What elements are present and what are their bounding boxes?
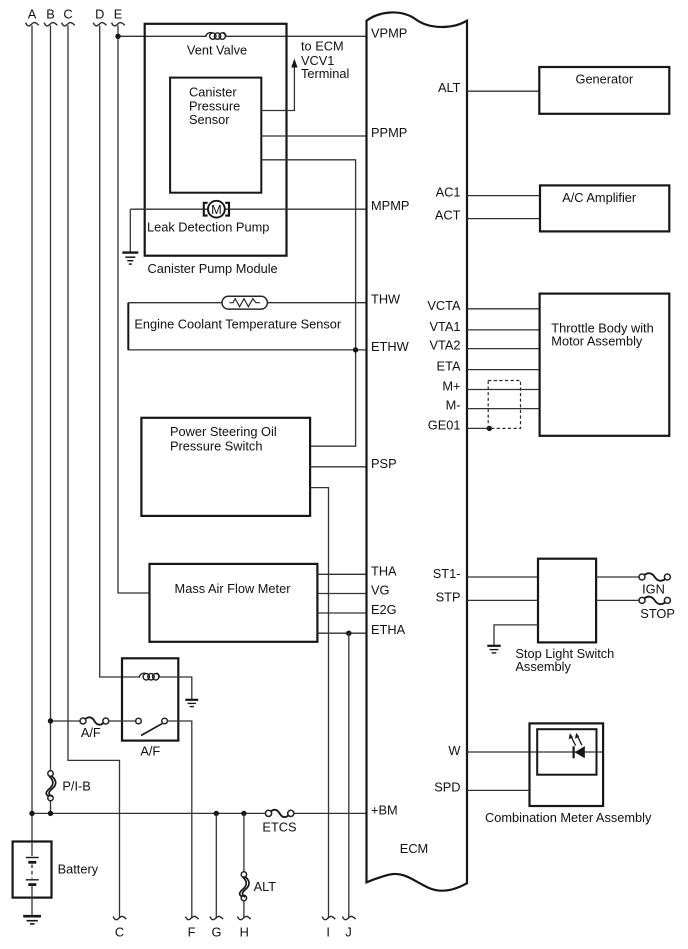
wire VG to ECM <box>317 593 366 595</box>
svg-text:F: F <box>188 925 196 940</box>
svg-text:W: W <box>448 743 461 758</box>
svg-text:PSP: PSP <box>371 456 397 471</box>
svg-text:Leak Detection Pump: Leak Detection Pump <box>147 219 269 234</box>
junction dot A/+BM <box>29 811 34 816</box>
svg-text:Mass Air Flow Meter: Mass Air Flow Meter <box>175 581 292 596</box>
junction dot E/VPMP <box>115 34 120 39</box>
svg-text:C: C <box>115 925 124 940</box>
wire B <box>50 25 52 771</box>
connector C squiggle bottom <box>113 916 126 919</box>
wire ETHW to ECM <box>128 349 366 351</box>
svg-text:VPMP: VPMP <box>371 25 407 40</box>
svg-text:H: H <box>240 925 249 940</box>
svg-text:Power Steering Oil: Power Steering Oil <box>170 424 277 439</box>
wire STP <box>467 599 538 601</box>
wire MPMP motor to ECM <box>130 208 366 210</box>
svg-text:A/F: A/F <box>81 725 101 740</box>
svg-text:J: J <box>345 925 351 940</box>
junction dot ETHW <box>353 347 358 352</box>
connector G squiggle <box>210 916 223 919</box>
battery plates <box>26 857 39 859</box>
wire ETHA to connector J <box>348 633 350 918</box>
svg-text:C: C <box>63 7 72 22</box>
svg-text:THA: THA <box>371 563 397 578</box>
vent valve coil L1 <box>206 33 226 40</box>
engine coolant temp sensor left edge <box>127 303 129 350</box>
svg-text:Canister: Canister <box>189 84 237 99</box>
wire fuse to relay switch <box>109 720 136 722</box>
svg-text:Assembly: Assembly <box>515 659 571 674</box>
connector D squiggle <box>93 23 106 26</box>
connector A squiggle <box>26 23 39 26</box>
relay switch blade <box>141 724 162 736</box>
ground A/F relay <box>185 700 198 707</box>
svg-text:ETHA: ETHA <box>371 622 406 637</box>
svg-text:Terminal: Terminal <box>301 66 349 81</box>
svg-text:M+: M+ <box>442 379 460 394</box>
relay coil <box>139 673 159 680</box>
svg-text:D: D <box>95 7 104 22</box>
svg-text:Motor Assembly: Motor Assembly <box>551 333 643 348</box>
ground stop light switch <box>487 646 500 653</box>
svg-text:ACT: ACT <box>435 208 461 223</box>
svg-text:ETHW: ETHW <box>371 339 410 354</box>
svg-text:ECM: ECM <box>400 841 428 856</box>
power steering oil pressure switch box <box>141 418 310 516</box>
wire relay switch to connector F <box>167 721 191 918</box>
svg-text:THW: THW <box>371 292 401 307</box>
svg-text:PPMP: PPMP <box>371 125 407 140</box>
svg-text:M: M <box>211 202 222 217</box>
svg-text:AC1: AC1 <box>436 185 461 200</box>
connector F squiggle <box>185 916 198 919</box>
svg-text:E2G: E2G <box>371 602 397 617</box>
wire PSP to ECM <box>310 466 366 468</box>
wire M+ <box>467 389 540 391</box>
svg-text:MPMP: MPMP <box>371 198 409 213</box>
svg-text:A/C Amplifier: A/C Amplifier <box>562 190 637 205</box>
svg-text:Pressure Switch: Pressure Switch <box>170 439 262 454</box>
svg-text:ST1-: ST1- <box>433 566 461 581</box>
connector I squiggle <box>322 916 335 919</box>
leak detection pump motor M1 <box>204 201 229 218</box>
svg-text:VTA2: VTA2 <box>429 338 460 353</box>
fuse A/F <box>80 718 86 724</box>
svg-text:VG: VG <box>371 583 390 598</box>
svg-text:Vent Valve: Vent Valve <box>187 42 247 57</box>
svg-text:ETA: ETA <box>437 359 461 374</box>
wire PSP switch to connector I <box>310 488 328 919</box>
ground canister pump module <box>129 209 131 252</box>
svg-text:GE01: GE01 <box>428 417 461 432</box>
connector B squiggle <box>44 23 57 26</box>
canister pressure sensor box <box>170 78 261 193</box>
wire switch to IGN fuse <box>596 576 639 578</box>
wire relay coil to ground <box>160 677 192 699</box>
thermistor R1 capsule <box>222 296 267 309</box>
svg-text:P/I-B: P/I-B <box>62 779 90 794</box>
wire W to combination meter <box>467 751 603 753</box>
svg-text:Battery: Battery <box>58 861 99 876</box>
generator G1 box <box>539 67 669 114</box>
svg-text:A/F: A/F <box>140 744 160 759</box>
wire PPMP sensor to ECM <box>261 135 366 137</box>
svg-text:G: G <box>212 925 222 940</box>
wire ETHA to ECM <box>317 632 366 634</box>
svg-text:Canister Pump Module: Canister Pump Module <box>148 261 278 276</box>
svg-text:E: E <box>114 7 123 22</box>
A/C amplifier box <box>540 185 669 231</box>
wire ACT <box>467 218 540 220</box>
svg-text:B: B <box>46 7 55 22</box>
combination meter outer box <box>530 723 604 806</box>
junction dot B / A-F fuse wire <box>48 718 53 723</box>
fuse IGN <box>639 574 645 580</box>
wire C (jogs right to bottom connector C) <box>68 25 120 918</box>
connector C squiggle top <box>62 23 75 26</box>
svg-text:I: I <box>326 925 330 940</box>
wire SPD <box>467 789 530 791</box>
wire H upper <box>243 813 245 871</box>
svg-text:Combination Meter Assembly: Combination Meter Assembly <box>485 810 652 825</box>
wire E2G to ECM <box>317 612 366 614</box>
canister pump module box <box>145 24 287 256</box>
svg-text:STP: STP <box>436 589 461 604</box>
wire VTA2 <box>467 348 540 350</box>
svg-text:M-: M- <box>446 398 461 413</box>
stop light switch box <box>538 559 596 643</box>
fuse STOP <box>639 597 645 603</box>
mass air flow meter box <box>150 564 318 642</box>
wire B lower segment <box>50 800 52 813</box>
svg-text:SPD: SPD <box>434 779 460 794</box>
battery BT1 box <box>13 842 52 898</box>
wire VPMP from node E to ECM <box>118 35 206 37</box>
junction dot B/+BM <box>48 811 53 816</box>
wire E (to VPMP tap and Mass Air Flow Meter) <box>118 25 150 593</box>
wire H lower <box>243 901 245 918</box>
svg-text:Generator: Generator <box>575 71 633 86</box>
junction dot ETHA <box>346 631 351 636</box>
svg-text:A: A <box>28 7 37 22</box>
wire GE01 to shield <box>467 427 489 429</box>
wire A (battery feed) <box>31 25 33 856</box>
fuse ETCS <box>265 810 271 816</box>
svg-text:+BM: +BM <box>371 803 398 818</box>
wire stop light switch ground <box>494 625 538 645</box>
junction dot H/+BM <box>241 811 246 816</box>
wire switch to STOP fuse <box>596 599 639 601</box>
svg-text:VTA1: VTA1 <box>429 319 460 334</box>
svg-text:VCTA: VCTA <box>427 298 461 313</box>
wire VCTA <box>467 308 540 310</box>
fusible link P/I-B <box>48 771 53 776</box>
ECM box <box>367 12 468 890</box>
svg-text:Sensor: Sensor <box>189 112 230 127</box>
wire ALT to generator <box>467 90 539 92</box>
wire battery to ground <box>31 885 33 916</box>
wire VTA1 <box>467 329 540 331</box>
wire ST1- <box>467 576 538 578</box>
wire ETA <box>467 369 540 371</box>
LED D1 <box>569 733 585 758</box>
wire +BM left segment <box>32 812 267 814</box>
wire sensor ground to ETHW junction and PSP upper <box>261 160 355 446</box>
wire +BM right segment <box>293 812 367 814</box>
thermistor zigzag <box>230 299 261 307</box>
junction dot G/+BM <box>214 811 219 816</box>
connector H squiggle <box>238 916 251 919</box>
fusible link ALT <box>241 872 246 877</box>
svg-text:ETCS: ETCS <box>262 820 296 835</box>
A/F relay box <box>122 658 178 740</box>
wire THW to ECM <box>128 302 366 304</box>
wire THA to ECM <box>317 573 366 575</box>
wire AC1 <box>467 195 540 197</box>
relay switch contacts <box>136 718 142 724</box>
wire G to connector <box>215 813 217 918</box>
junction dot GE01 shield <box>487 426 492 431</box>
connector E squiggle <box>112 23 125 26</box>
svg-text:IGN: IGN <box>642 582 665 597</box>
svg-text:STOP: STOP <box>640 606 675 621</box>
shield dashed box <box>488 381 520 429</box>
throttle body box <box>540 294 670 436</box>
svg-text:to ECM: to ECM <box>301 39 344 54</box>
svg-text:Engine Coolant Temperature Sen: Engine Coolant Temperature Sensor <box>134 317 342 332</box>
connector J squiggle <box>342 916 355 919</box>
svg-text:ALT: ALT <box>254 879 277 894</box>
combination meter inner box <box>537 729 596 775</box>
arrow to ECM VCV1 terminal <box>291 59 297 68</box>
wire M- <box>467 408 540 410</box>
wire A/F fuse feed from wire B <box>51 720 81 722</box>
wire D (to A/F relay coil) <box>100 25 140 677</box>
svg-text:ALT: ALT <box>438 80 461 95</box>
wire sensor to VCV1 arrow <box>261 67 294 111</box>
ground battery <box>23 916 41 924</box>
